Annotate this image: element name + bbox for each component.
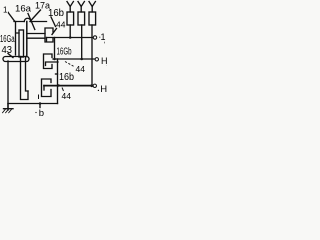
leader for 16a xyxy=(28,14,35,30)
svg-text:43: 43 xyxy=(2,44,13,56)
leader for 44 top xyxy=(52,29,57,35)
junction dot A-Y1 xyxy=(69,36,72,39)
svg-text:44: 44 xyxy=(56,20,66,30)
speck before terminal 1 label xyxy=(99,37,100,38)
jack J2 xyxy=(44,54,53,69)
wire hump on W1 xyxy=(24,18,31,21)
antenna Y2 xyxy=(78,2,84,13)
junction dot B-Y2 xyxy=(80,58,83,61)
tap wire upper xyxy=(27,33,45,35)
ground wire xyxy=(7,104,9,109)
svg-text:16Gb: 16Gb xyxy=(57,47,72,58)
box under Y3 xyxy=(89,12,96,25)
leader for 16b xyxy=(51,17,56,27)
junction dot C-drop xyxy=(57,84,60,87)
box under Y2 xyxy=(78,12,85,25)
terminal circle A xyxy=(93,36,96,39)
junction dot C-Y3 xyxy=(90,84,93,87)
pin J2 xyxy=(46,62,59,66)
svg-text:44: 44 xyxy=(62,91,72,101)
leader for 17a xyxy=(30,10,41,22)
jack J1 xyxy=(45,28,53,42)
left wire from W1 down xyxy=(16,22,20,56)
ground bar xyxy=(4,108,14,110)
svg-text:16b: 16b xyxy=(59,71,74,83)
leg x20 below oval xyxy=(21,57,29,100)
terminal circle C xyxy=(93,84,96,87)
box under Y1 xyxy=(67,12,74,25)
junction dot branch-B xyxy=(53,58,56,61)
pin hook J1 xyxy=(46,38,48,42)
terminal b stub xyxy=(39,104,41,108)
svg-text:,: , xyxy=(104,38,106,45)
horizontal oval base xyxy=(3,57,29,62)
leader for 44 mid xyxy=(65,62,74,67)
leg x24.5 below oval xyxy=(26,57,29,92)
pin hook J3 xyxy=(43,86,45,91)
svg-text:16b: 16b xyxy=(48,8,64,19)
svg-text:H: H xyxy=(100,84,107,95)
stem Y2 to wire B xyxy=(81,25,83,59)
antenna Y1 xyxy=(67,2,73,13)
ground hatches xyxy=(3,109,12,113)
leader for 44 bottom xyxy=(62,88,64,92)
stem Y3 to wire C xyxy=(91,25,93,86)
dot before b xyxy=(35,112,36,113)
antenna Y3 xyxy=(89,2,95,13)
svg-text:b: b xyxy=(39,108,44,119)
dot before H xyxy=(98,90,99,91)
stem Y1 to wire A xyxy=(69,25,71,38)
tick on drop wire xyxy=(56,73,58,75)
wire C thick xyxy=(44,85,93,87)
svg-text:1: 1 xyxy=(106,62,107,68)
svg-text:16a: 16a xyxy=(15,4,32,15)
wire top bus W1 with hump xyxy=(14,21,47,23)
svg-text:44: 44 xyxy=(76,64,86,74)
junction dot bus-b xyxy=(39,102,42,105)
leader from label 1 xyxy=(9,13,15,21)
crystal plate rect xyxy=(19,30,24,57)
svg-text:1.: 1. xyxy=(3,6,10,15)
wire A xyxy=(47,37,93,39)
terminal circle B xyxy=(95,58,98,61)
jack J3 xyxy=(42,79,52,97)
leader for 43 xyxy=(8,54,13,58)
vertical drop to bottom bus xyxy=(57,59,59,104)
tap wire lower xyxy=(27,37,45,39)
small stub near jack3 bottom xyxy=(38,95,40,99)
bottom bus xyxy=(8,103,58,105)
right electrode bar xyxy=(26,22,28,57)
wire B xyxy=(53,58,95,60)
wire A to B branch xyxy=(54,38,56,60)
left leg below oval xyxy=(7,61,9,110)
